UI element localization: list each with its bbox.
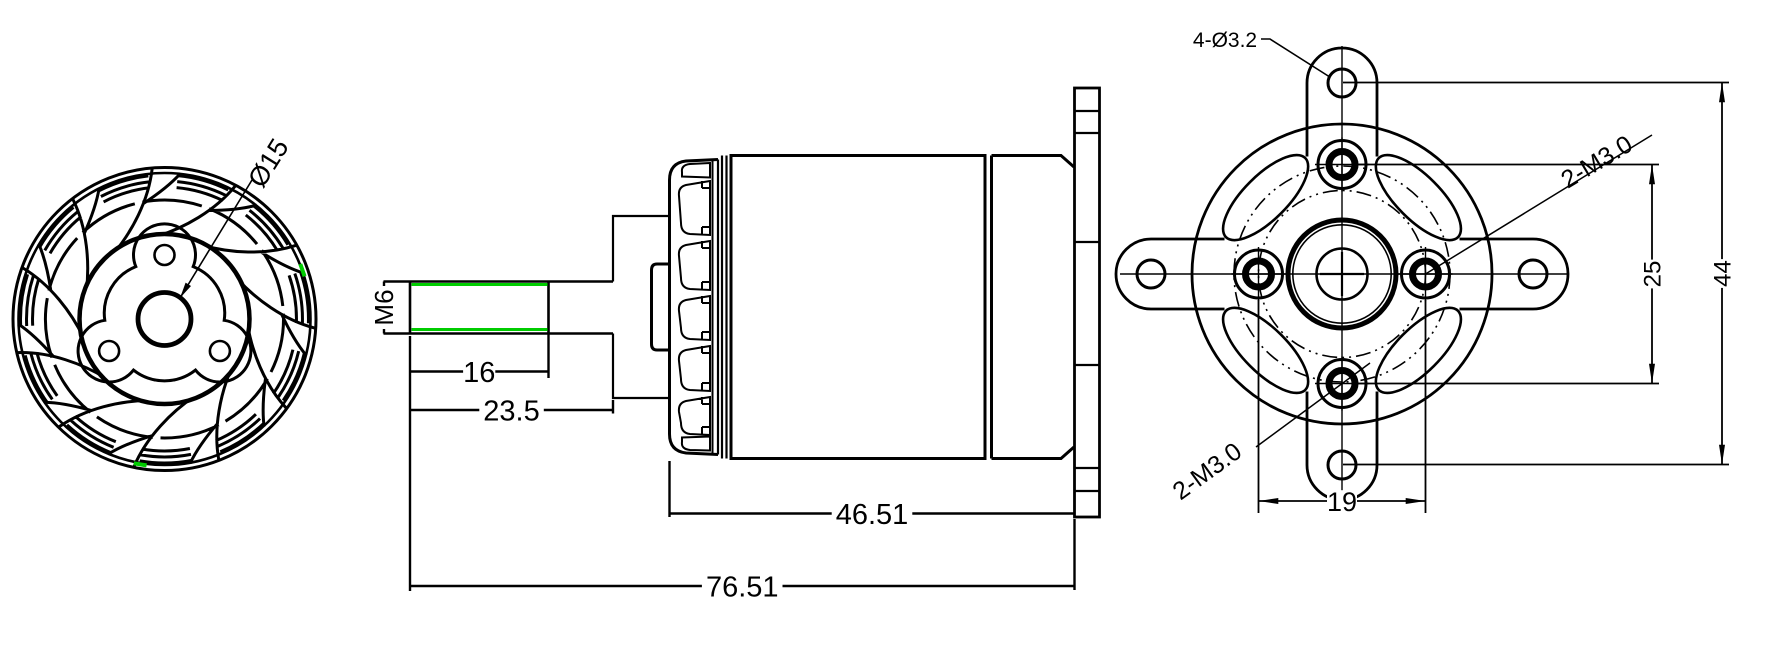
fan outer circle — [13, 168, 316, 471]
right view: mount — [1116, 46, 1568, 505]
rear housing — [992, 156, 1075, 459]
arm hole E — [1519, 260, 1547, 288]
label 2-M3.0 top right — [1556, 130, 1637, 194]
cap vent windows — [679, 159, 713, 455]
leader line dia15 — [180, 180, 252, 298]
screw hole N — [1318, 141, 1366, 189]
fan small hole at 150deg — [99, 341, 119, 361]
center boss ring — [1288, 220, 1396, 328]
rotor cylinder — [731, 156, 985, 459]
svg-text:4-Ø3.2: 4-Ø3.2 — [1193, 29, 1257, 52]
screw hole S — [1318, 360, 1366, 408]
horizontal centerline — [1120, 273, 1568, 275]
fan blades — [18, 169, 315, 466]
fan small hole at 30deg — [210, 341, 230, 361]
mount arm S — [1307, 392, 1377, 501]
label 2-M3.0 bottom left — [1168, 437, 1247, 505]
dimensions — [369, 29, 1737, 604]
dim 19 — [1259, 500, 1426, 502]
flange division lines — [1075, 111, 1100, 491]
fan hub circle — [80, 234, 250, 404]
green tick bottom — [134, 463, 147, 465]
middle view: motor side — [384, 88, 1100, 517]
shaft outline — [384, 282, 614, 334]
vent slots — [1363, 295, 1473, 405]
vertical centerline — [1341, 46, 1343, 505]
center shaft hole — [1317, 249, 1368, 300]
arm hole N — [1328, 69, 1356, 97]
mount flange plate — [1075, 88, 1100, 517]
step bracket — [613, 216, 669, 398]
bolt circle dash-dot r108 — [1234, 166, 1450, 382]
fan center hole — [138, 293, 191, 346]
shaft green thread top — [412, 283, 548, 286]
mount arm N — [1307, 48, 1377, 157]
dim 46.51 — [670, 512, 1075, 515]
svg-text:M6: M6 — [369, 289, 399, 325]
fan small hole at 270deg — [155, 245, 175, 265]
dim M6 — [383, 282, 385, 334]
center cross — [1320, 252, 1364, 296]
left view: fan — [13, 133, 316, 470]
front cap outline — [670, 160, 719, 455]
dim 76.51 — [410, 585, 1075, 588]
screw hole E — [1402, 250, 1450, 298]
cap lip lines — [718, 156, 731, 459]
screw hole W — [1235, 250, 1283, 298]
mount arm E — [1460, 239, 1569, 309]
svg-text:25: 25 — [1640, 261, 1667, 288]
bolt circle dash-dot r83.5 — [1259, 191, 1426, 358]
dim 16 — [410, 370, 549, 373]
svg-text:76.51: 76.51 — [706, 572, 779, 604]
extension lines right view — [1259, 83, 1730, 514]
svg-text:44: 44 — [1710, 260, 1737, 287]
green tick right — [300, 264, 304, 276]
svg-text:23.5: 23.5 — [483, 396, 539, 428]
arm hole S — [1328, 451, 1356, 479]
body outer circle — [1192, 124, 1492, 424]
dim 44 — [1721, 83, 1723, 465]
bearing boss — [652, 264, 671, 350]
extension lines middle view — [410, 333, 1075, 591]
dim 25 — [1651, 165, 1653, 384]
hub plate rounded triangle — [78, 224, 251, 382]
label dia15 — [242, 133, 294, 192]
svg-text:19: 19 — [1327, 487, 1357, 517]
svg-text:16: 16 — [463, 357, 495, 389]
dim 23.5 — [410, 409, 613, 412]
fan rim inner circle — [19, 173, 311, 465]
svg-text:46.51: 46.51 — [836, 499, 909, 531]
shaft green thread bottom — [412, 328, 548, 331]
mount arm W — [1116, 239, 1225, 309]
arm hole W — [1137, 260, 1165, 288]
